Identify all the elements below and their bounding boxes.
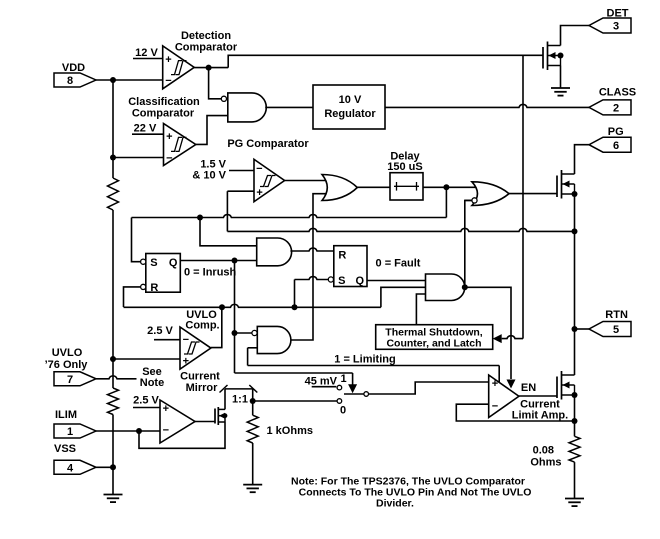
svg-text:Mirror: Mirror xyxy=(186,382,219,394)
node delay output dot xyxy=(443,184,449,190)
block Thermal Shutdown Counter and Latch xyxy=(376,325,493,350)
wire AND E output up to OR2 bubble xyxy=(465,200,472,287)
svg-text:45 mV: 45 mV xyxy=(305,376,338,388)
wire CL resistor to ground xyxy=(574,462,576,498)
node latch2 S branch dot xyxy=(292,304,298,310)
node DET body dot xyxy=(558,53,564,59)
wire detection output xyxy=(194,67,228,69)
ground VSS rail ground xyxy=(104,494,123,496)
svg-text:−: − xyxy=(183,334,189,346)
wire switch lever xyxy=(344,393,364,395)
wire switch arrow xyxy=(348,384,357,393)
svg-text:S: S xyxy=(150,257,157,269)
node CL feedback dot xyxy=(572,418,578,424)
wire detection to NAND bubble xyxy=(209,68,221,99)
wire thermal arrow xyxy=(493,334,502,343)
svg-text:0 = Fault: 0 = Fault xyxy=(376,258,421,270)
svg-text:0: 0 xyxy=(340,405,346,417)
wire switch common to amp plus xyxy=(369,382,489,394)
wire mirror drain rail xyxy=(224,389,226,410)
and-gate A detection/classification xyxy=(221,96,226,101)
wire delay tap down xyxy=(445,187,447,217)
wire 2.5V stub uvlo xyxy=(154,339,180,341)
svg-text:2.5 V: 2.5 V xyxy=(147,325,173,337)
svg-text:’76 Only: ’76 Only xyxy=(45,359,89,371)
and-gate E fault/uvlo/thermal xyxy=(426,274,465,301)
ground CL ground xyxy=(565,498,584,500)
svg-text:Comparator: Comparator xyxy=(175,42,238,54)
node UVLO divider tap dot xyxy=(110,356,116,362)
transistor Q4 current limit switch xyxy=(556,377,558,399)
node RTN junction dot xyxy=(572,326,578,332)
resistor divider lower R xyxy=(108,388,119,415)
node PG-sense to source dot xyxy=(572,228,578,234)
svg-text:1 = Limiting: 1 = Limiting xyxy=(334,354,395,366)
svg-text:−: − xyxy=(165,75,171,87)
ground mirror ground xyxy=(243,484,262,486)
svg-text:UVLO: UVLO xyxy=(52,347,83,359)
node switch contact 1 xyxy=(337,385,342,390)
svg-text:+: + xyxy=(165,54,171,66)
wire PG drain to pin xyxy=(575,145,590,174)
svg-text:+: + xyxy=(163,403,169,415)
wire AND A output to regulator xyxy=(265,106,313,108)
svg-text:Q: Q xyxy=(356,275,365,287)
op-amp U6 current limit amp xyxy=(489,375,519,418)
svg-text:CLASS: CLASS xyxy=(599,87,636,99)
node detection output dot xyxy=(206,65,212,71)
svg-text:& 10 V: & 10 V xyxy=(192,170,226,182)
svg-text:2.5 V: 2.5 V xyxy=(133,395,159,407)
wire latch1 R input xyxy=(124,287,141,307)
node switch common xyxy=(364,392,369,397)
wire amp minus feedback xyxy=(456,404,574,421)
svg-text:Classification: Classification xyxy=(128,96,200,108)
svg-text:8: 8 xyxy=(67,75,73,87)
wire gate D output to OR1 xyxy=(291,194,326,340)
wire bus tap to gate C xyxy=(200,218,257,246)
wire VDD pin to node xyxy=(96,79,163,81)
wire delay output to OR2 xyxy=(423,186,484,188)
flip-flop latch2 R/S fault xyxy=(334,246,367,287)
svg-text:1 kOhms: 1 kOhms xyxy=(267,425,313,437)
svg-text:Comp.: Comp. xyxy=(185,320,219,332)
wire EN arrow xyxy=(507,380,516,389)
wire latch1 Q to gate C xyxy=(180,260,256,262)
node VDD junction dot xyxy=(110,77,116,83)
wire classification output to AND xyxy=(196,116,228,145)
node AND E output dot xyxy=(462,284,468,290)
wire UVLO pin stub with hop over divider xyxy=(96,376,137,379)
wire 22V stub xyxy=(132,133,164,135)
wire RTN pin stub xyxy=(575,328,590,330)
resistor divider upper R xyxy=(108,178,119,210)
wire gate D bubble input xyxy=(235,332,252,334)
wire limiting bus xyxy=(248,365,500,367)
ground DET ground xyxy=(551,87,570,89)
wire PG comparator plus input xyxy=(227,190,254,192)
svg-text:−: − xyxy=(163,425,169,437)
node UVLO output junction dot xyxy=(219,304,225,310)
wire latch1 Q branch down xyxy=(234,261,236,374)
and-gate D inrush xyxy=(252,330,257,335)
flip-flop latch1 S/R inrush xyxy=(146,254,181,293)
svg-text:22 V: 22 V xyxy=(134,123,157,135)
svg-text:Note: Note xyxy=(140,377,164,389)
wire S-set bus y218 xyxy=(132,215,447,218)
svg-text:1: 1 xyxy=(67,426,73,438)
wire UVLO comparator plus from divider xyxy=(113,358,180,360)
svg-text:Connects To The UVLO Pin And N: Connects To The UVLO Pin And Not The UVL… xyxy=(299,487,532,499)
node S-set bus dot xyxy=(197,215,203,221)
node mirror resistor dot xyxy=(250,398,256,404)
node class-comparator tap dot xyxy=(110,155,116,161)
wire S-set bus corner to latch1 S xyxy=(132,218,141,262)
wire 2.5V stub mirror xyxy=(133,407,160,409)
wire 12V stub xyxy=(133,58,163,60)
svg-text:3: 3 xyxy=(613,21,619,33)
wire VDD vertical rail xyxy=(112,80,114,178)
svg-text:−: − xyxy=(492,401,498,413)
transistor Q1 mirror FET xyxy=(214,409,216,424)
svg-text:+: + xyxy=(183,356,189,368)
wire 45mV stub xyxy=(312,386,337,388)
svg-text:+: + xyxy=(166,131,172,143)
wire OR1 output to delay xyxy=(357,186,390,188)
wire detection long run to DET gate xyxy=(228,55,523,67)
wire gate C output to latch2 R with hop xyxy=(290,248,333,251)
wire UVLO net bus xyxy=(124,304,381,307)
svg-text:ILIM: ILIM xyxy=(55,409,77,421)
wire mirror amp output to gate xyxy=(195,421,215,423)
wire regulator to CLASS pin with hop xyxy=(385,104,589,107)
op-amp U2 classification comparator xyxy=(164,124,196,166)
node PG source dot xyxy=(572,191,578,197)
svg-text:PG Comparator: PG Comparator xyxy=(227,138,309,150)
wire CL source down xyxy=(574,395,576,436)
svg-text:6: 6 xyxy=(613,140,619,152)
current-mirror 1:1 bar xyxy=(225,388,253,390)
svg-text:12 V: 12 V xyxy=(135,47,158,59)
node latch1 Q branch dot xyxy=(232,258,238,264)
svg-text:Counter, and Latch: Counter, and Latch xyxy=(386,338,481,350)
svg-text:Detection: Detection xyxy=(181,30,231,42)
svg-text:2: 2 xyxy=(613,103,619,115)
wire class-comparator minus input xyxy=(113,157,164,159)
block 10 V Regulator xyxy=(313,85,385,129)
wire OR2 output to PG MOSFET gate xyxy=(509,193,558,195)
svg-text:+: + xyxy=(256,187,262,199)
wire PG comparator output xyxy=(285,180,332,182)
wire mirror to contact 0 xyxy=(253,400,337,402)
svg-text:4: 4 xyxy=(67,463,74,475)
transistor Q3 PG switch xyxy=(556,176,558,198)
or-gate OR1 xyxy=(322,175,357,201)
wire VSS to rail xyxy=(96,466,113,468)
wire latch2 Q to AND E xyxy=(367,280,426,282)
svg-text:VSS: VSS xyxy=(54,443,76,455)
and-gate C xyxy=(257,238,292,266)
svg-text:R: R xyxy=(150,282,158,294)
svg-text:Comparator: Comparator xyxy=(132,108,195,120)
node switch contact 0 xyxy=(337,399,342,404)
svg-text:5: 5 xyxy=(613,324,619,336)
svg-text:Current: Current xyxy=(180,371,220,383)
svg-text:7: 7 xyxy=(67,374,73,386)
svg-text:1: 1 xyxy=(340,373,346,385)
svg-text:EN: EN xyxy=(521,382,536,394)
svg-text:0.08: 0.08 xyxy=(533,445,554,457)
svg-text:−: − xyxy=(256,163,262,175)
wire UVLO comparator output up xyxy=(211,307,222,347)
wire amp output to CL gate xyxy=(519,395,558,397)
svg-text:PG: PG xyxy=(608,126,624,138)
svg-text:Regulator: Regulator xyxy=(324,108,376,120)
wire latch2 S input with hop xyxy=(295,277,329,280)
transistor Q2 DET switch xyxy=(542,47,544,69)
block delay 150us xyxy=(390,173,423,200)
op-amp U3 PG comparator xyxy=(254,159,285,201)
node CL source dot xyxy=(572,392,578,398)
svg-text:+: + xyxy=(492,378,498,390)
svg-text:R: R xyxy=(338,250,346,262)
node ILIM feedback dot xyxy=(136,428,142,434)
svg-text:S: S xyxy=(338,275,345,287)
or-gate OR2 xyxy=(472,182,509,206)
wire 1k resistor to ground xyxy=(252,443,254,485)
op-amp U1 detection comparator xyxy=(163,46,195,89)
op-amp U5 current mirror amp xyxy=(160,400,195,443)
wire UVLO net to AND E xyxy=(381,287,426,307)
svg-text:RTN: RTN xyxy=(605,309,628,321)
node VSS rail dot xyxy=(110,464,116,470)
svg-text:−: − xyxy=(166,153,172,165)
resistor 0.08 Ohms xyxy=(569,436,580,462)
svg-text:150 uS: 150 uS xyxy=(387,161,422,173)
wire AND E output to EN xyxy=(465,287,511,379)
resistor 1 kOhms xyxy=(247,415,258,443)
svg-text:Q: Q xyxy=(169,257,178,269)
wire DET source to ground xyxy=(560,66,562,89)
svg-text:VDD: VDD xyxy=(62,62,85,74)
wire gate D lower input xyxy=(248,347,258,349)
svg-text:Limit Amp.: Limit Amp. xyxy=(512,410,568,422)
wire thermal box top to AND E xyxy=(416,294,425,325)
svg-text:0 = Inrush: 0 = Inrush xyxy=(184,267,237,279)
svg-text:1:1: 1:1 xyxy=(232,394,248,406)
op-amp U4 UVLO comparator xyxy=(180,327,211,369)
wire 1.5V stub xyxy=(229,170,254,172)
wire mirror right rail xyxy=(252,389,254,415)
wire RTN rail xyxy=(574,194,576,375)
wire PG-sense bus y231 xyxy=(226,191,228,231)
wire ILIM to mirror amp minus xyxy=(96,430,160,432)
wire mirror FET source feedback xyxy=(139,422,225,448)
svg-text:Divider.: Divider. xyxy=(376,498,414,510)
wire DET drain to pin xyxy=(561,26,590,46)
wire detection line to thermal with hops xyxy=(522,55,524,338)
svg-text:Ohms: Ohms xyxy=(530,457,561,469)
svg-text:10 V: 10 V xyxy=(339,94,362,106)
